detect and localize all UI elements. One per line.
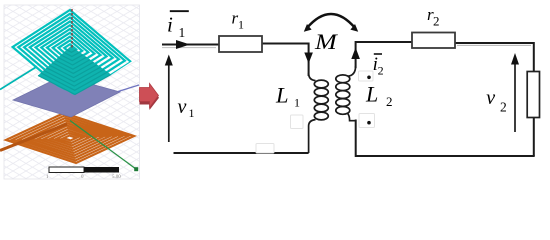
svg-text:1: 1 [238, 18, 244, 32]
label L2 [365, 82, 393, 110]
faint box artifact near L1 [291, 115, 304, 129]
svg-text:2: 2 [500, 100, 507, 115]
svg-text:2: 2 [386, 94, 393, 109]
svg-text:L: L [275, 83, 289, 108]
photo panel: 3D stacked planar coils [0, 4, 140, 180]
orange spiral coil (bottom layer) [6, 113, 134, 163]
label i2 with overbar [373, 53, 384, 77]
svg-text:5.00: 5.00 [112, 175, 121, 180]
current arrow into primary coil [304, 53, 313, 64]
svg-text:v: v [486, 87, 495, 109]
green probe line [70, 121, 136, 170]
faint box artifact at secondary top dot [359, 71, 374, 81]
faint box artifact at secondary bottom dot [359, 114, 375, 128]
label L1 [275, 83, 300, 110]
label r1 [232, 9, 245, 32]
voltage arrow v1 [165, 55, 173, 143]
orange coil feed line [0, 124, 67, 151]
resistor r1 [219, 36, 262, 52]
svg-text:1: 1 [179, 25, 186, 40]
svg-text:1: 1 [294, 96, 300, 110]
label i1 with overbar [167, 10, 189, 40]
wire: secondary top, corner to r2 [356, 42, 412, 68]
svg-text:M: M [314, 30, 339, 55]
wire: secondary bottom [356, 120, 535, 157]
current arrow i1 on wire [176, 40, 190, 49]
load resistor on right branch [527, 72, 539, 118]
svg-text:2: 2 [433, 14, 440, 29]
svg-text:1: 1 [189, 106, 195, 120]
wire: primary bottom [174, 152, 309, 154]
teal coil feed line [0, 67, 37, 90]
purple plane lead [118, 85, 139, 92]
wire: r2 to right corner, down right side [455, 43, 534, 156]
big red transition arrow [140, 84, 160, 111]
svg-text:L: L [365, 82, 378, 107]
inductor L1 (primary coil) [309, 73, 329, 153]
wire: top-left input to r1 [162, 44, 219, 46]
teal spiral coil (top layer) [13, 10, 131, 99]
teal coil 3D stack (pyramid) [38, 46, 111, 95]
polarity dot bottom [367, 121, 371, 125]
label r2 [427, 5, 440, 29]
svg-text:v: v [178, 96, 187, 118]
svg-text:i: i [167, 13, 173, 37]
resistor r2 [412, 33, 455, 49]
teal coil center via [71, 9, 73, 49]
voltage arrow v2 [511, 53, 519, 132]
wire: r1 to transformer corner [262, 44, 309, 77]
current arrow out of secondary coil [351, 48, 360, 60]
scale bar [46, 167, 121, 180]
faint box artifact on bottom wire [256, 144, 274, 154]
mutual inductance arc M [304, 14, 358, 32]
label v2 [486, 87, 506, 115]
svg-text:2: 2 [378, 64, 384, 78]
polarity dot top [367, 76, 371, 80]
label v1 [178, 96, 195, 120]
purple substrate plane [13, 76, 120, 117]
inductor L2 (secondary coil) [336, 66, 356, 121]
